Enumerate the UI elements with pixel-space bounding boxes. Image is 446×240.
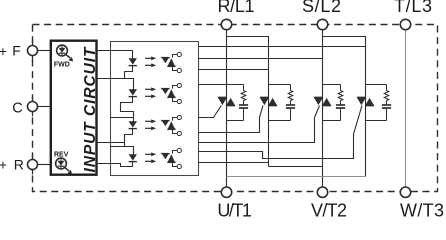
- indicator arrow REV: [64, 167, 69, 171]
- wire stub below C: [32, 111, 34, 116]
- terminal T/L3: [400, 19, 410, 29]
- wire gate Q3: [199, 106, 320, 143]
- wire terminal +R to input circuit: [37, 164, 51, 166]
- wire LED D3 cathode jog: [125, 129, 133, 147]
- wire snubber bracket Q4: [366, 84, 387, 86]
- wire stub below +F: [32, 55, 34, 60]
- capacitor C2 (snubber): [286, 104, 295, 106]
- svg-text:C: C: [12, 101, 22, 117]
- optocoupler block outline: [111, 42, 199, 176]
- triac Q2: [260, 96, 269, 98]
- light arrows opto U4: [145, 153, 152, 155]
- svg-text:V/T2: V/T2: [311, 201, 347, 220]
- svg-text:FWD: FWD: [54, 62, 70, 69]
- light arrows opto U3: [145, 120, 152, 122]
- wire T/L3 direct to W/T3: [405, 30, 407, 188]
- svg-text:S/L2: S/L2: [302, 0, 341, 16]
- triac Q3: [314, 96, 323, 98]
- wire rung U2 output: [199, 58, 323, 60]
- wire FWD mid tap: [97, 79, 134, 90]
- wire terminal +F to input circuit: [37, 50, 51, 52]
- wire REV mid tap: [97, 142, 125, 144]
- phototriac U4 bottom pin: [173, 162, 178, 166]
- phototriac U2: [161, 88, 169, 90]
- svg-text:R: R: [14, 157, 24, 173]
- wire S branch to Q4: [323, 37, 366, 177]
- terminal U/T1: [221, 187, 231, 197]
- phototriac U4 top pin: [173, 151, 178, 154]
- svg-text:F: F: [12, 42, 21, 58]
- wire U route: [227, 176, 366, 178]
- phototriac U1: [161, 57, 169, 59]
- light arrows opto U2: [145, 88, 152, 90]
- wire stub above +F: [32, 41, 34, 46]
- capacitor C4 (snubber): [382, 104, 391, 106]
- phototriac U3 bottom pin: [173, 129, 178, 133]
- triac Q4: [357, 96, 366, 98]
- svg-text:T/L3: T/L3: [394, 0, 432, 16]
- wire stub below +R: [32, 169, 34, 174]
- wire rung U3 output: [199, 69, 269, 71]
- wire center stub row2-3: [111, 117, 134, 119]
- opto LED D4: [129, 154, 137, 160]
- wire FWD feed to LED D1: [97, 51, 133, 59]
- wire snubber bracket Q3: [323, 84, 341, 86]
- resistor R2 (snubber): [290, 85, 292, 91]
- wire R/L1 drop (phase R / U column): [226, 30, 228, 188]
- wire rung lower extra: [199, 162, 269, 164]
- module outline (dashed enclosure border): [33, 25, 438, 192]
- wire center stub row3-4: [111, 147, 134, 155]
- opto LED D2: [129, 89, 137, 95]
- wire gate Q1: [199, 106, 222, 118]
- wire LED D2 cathode jog: [121, 97, 134, 122]
- wire snubber bottom bracket Q2: [269, 120, 291, 122]
- terminal R/L1: [221, 19, 231, 29]
- wire snubber bottom bracket Q1: [227, 120, 244, 122]
- wire LED D4 return: [97, 162, 133, 167]
- wire rung U1 output: [199, 46, 366, 48]
- wire gate Q2: [199, 106, 264, 133]
- capacitor C1 (snubber): [239, 104, 248, 106]
- svg-text:INPUT CIRCUIT: INPUT CIRCUIT: [82, 46, 99, 173]
- wire stub above C: [32, 97, 34, 102]
- indicator LED REV: [56, 158, 67, 169]
- terminal S/L2: [317, 19, 327, 29]
- light arrows opto U1: [145, 57, 152, 59]
- wire snubber bottom bracket Q4: [366, 120, 387, 122]
- wire LED D1 cathode jog: [125, 66, 133, 79]
- terminal +R: [28, 160, 38, 170]
- phototriac U2 top pin: [173, 86, 178, 89]
- indicator LED FWD: [57, 45, 68, 56]
- phototriac U3: [161, 120, 169, 122]
- opto LED D1: [129, 58, 137, 64]
- terminal +F: [28, 46, 38, 56]
- triac Q1: [218, 96, 227, 98]
- terminal C: [28, 102, 38, 112]
- resistor R1 (snubber): [243, 85, 245, 91]
- wire snubber bottom bracket Q3: [323, 120, 341, 122]
- wire S/L2 drop (phase S / V column): [322, 30, 324, 188]
- svg-text:+: +: [0, 44, 7, 59]
- wire gate Q4: [199, 106, 363, 159]
- wire R branch to Q2: [227, 37, 269, 167]
- terminal V/T2: [317, 187, 327, 197]
- phototriac U4: [161, 153, 169, 155]
- terminal W/T3: [400, 187, 410, 197]
- resistor R3 (snubber): [340, 85, 342, 91]
- phototriac U1 top pin: [173, 55, 178, 58]
- phototriac U1 bottom pin: [173, 66, 178, 70]
- wire snubber bracket Q2: [269, 84, 291, 86]
- wire stub above +R: [32, 155, 34, 160]
- phototriac U2 bottom pin: [173, 97, 178, 101]
- svg-text:W/T3: W/T3: [400, 201, 444, 220]
- resistor R4 (snubber): [386, 85, 388, 91]
- phototriac U3 top pin: [173, 118, 178, 121]
- capacitor C3 (snubber): [336, 104, 345, 106]
- wire rung U4 output / snubber bracket Q1: [199, 84, 244, 86]
- wire Q2 to V/T2: [269, 166, 323, 168]
- opto LED D3: [129, 121, 137, 127]
- indicator arrow FWD: [65, 54, 70, 58]
- svg-text:R/L1: R/L1: [218, 0, 255, 16]
- svg-text:+: +: [0, 157, 7, 172]
- svg-text:U/T1: U/T1: [217, 201, 252, 220]
- wire terminal C to input circuit: [37, 106, 51, 108]
- input circuit block U1: [51, 41, 97, 175]
